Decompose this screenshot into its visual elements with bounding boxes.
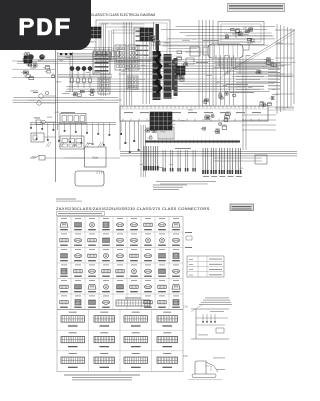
svg-text:ZAXIS230CLASS/ZAXIS225US/SR230: ZAXIS230CLASS/ZAXIS225US/SR230 CLASS/270… [56, 206, 210, 211]
svg-text:CLASS/270 CLASS ELECTRICAL DIA: CLASS/270 CLASS ELECTRICAL DIAGRAM [91, 13, 156, 17]
svg-text:C.M.: C.M. [183, 355, 188, 358]
svg-text:Cbat: Cbat [92, 156, 99, 160]
svg-text:C.M.: C.M. [183, 306, 188, 309]
